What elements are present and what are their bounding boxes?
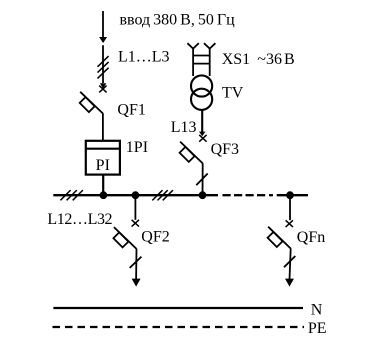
svg-text:QF2: QF2	[141, 229, 169, 246]
svg-text:~36: ~36	[257, 51, 282, 68]
svg-text:PI: PI	[96, 157, 110, 174]
svg-text:PE: PE	[308, 320, 327, 337]
svg-text:ввод 380 В, 50 Гц: ввод 380 В, 50 Гц	[120, 12, 236, 29]
svg-text:QFn: QFn	[297, 229, 325, 246]
svg-text:L1…L3: L1…L3	[118, 48, 170, 65]
svg-text:В: В	[284, 51, 295, 68]
svg-text:1PI: 1PI	[126, 139, 148, 156]
svg-text:TV: TV	[222, 85, 244, 102]
svg-text:L13: L13	[171, 119, 197, 136]
svg-text:QF3: QF3	[211, 141, 239, 158]
svg-text:XS1: XS1	[222, 51, 250, 68]
svg-text:N: N	[311, 302, 323, 319]
svg-text:QF1: QF1	[117, 101, 145, 118]
svg-text:L12…L32: L12…L32	[47, 211, 112, 228]
